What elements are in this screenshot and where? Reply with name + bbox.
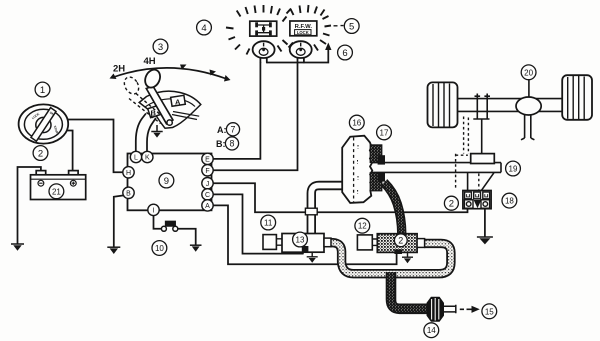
label 9 <box>159 173 174 188</box>
svg-text:A:: A: <box>217 125 227 135</box>
arrow to vacuum source 15 <box>460 306 480 313</box>
solenoid valve 12 body <box>357 234 424 254</box>
terminal H <box>123 167 134 178</box>
dashed hub housing outline <box>456 117 479 191</box>
lever range arc 2H-4H <box>113 68 228 79</box>
label 7 with A <box>217 123 240 136</box>
svg-text:H: H <box>126 170 131 177</box>
ground: shift lever <box>151 125 162 138</box>
label 14 <box>424 323 439 338</box>
svg-text:8: 8 <box>230 139 235 149</box>
ground: terminal B <box>107 247 120 254</box>
circled number labels <box>33 19 536 338</box>
svg-text:4H: 4H <box>144 56 156 67</box>
label 13 <box>293 232 308 247</box>
svg-text:18: 18 <box>505 197 514 206</box>
label 2 on valve 12 <box>394 234 407 247</box>
control unit terminals <box>123 151 213 215</box>
svg-text:F: F <box>205 168 209 175</box>
axle beam <box>457 99 562 112</box>
svg-text:7: 7 <box>231 125 236 135</box>
svg-text:E: E <box>205 157 210 164</box>
label 10 <box>152 241 167 256</box>
actuator 16 <box>342 136 372 203</box>
svg-text:2H: 2H <box>113 64 125 75</box>
indicator bulb 5 <box>290 41 312 58</box>
label 21 <box>49 184 64 199</box>
indicator lamp group <box>226 5 344 58</box>
arrowhead of node 6 <box>325 43 331 51</box>
wire: terminal B to ground <box>114 195 125 246</box>
svg-text:B: B <box>126 191 131 198</box>
label 18 <box>502 193 517 208</box>
left wheel <box>428 82 458 127</box>
svg-text:5: 5 <box>349 21 354 32</box>
terminal B <box>123 187 134 198</box>
svg-text:9: 9 <box>164 176 169 187</box>
front axle assembly <box>428 75 593 190</box>
svg-text:A: A <box>175 97 181 106</box>
svg-text:A: A <box>205 203 210 210</box>
ground: dash switch 10 <box>190 245 202 252</box>
wire: terminal I to dash switch and ground <box>154 215 162 229</box>
svg-text:20: 20 <box>524 68 533 77</box>
dash switch 10 contacts <box>161 221 177 231</box>
knuckle funnel <box>468 173 494 191</box>
wire: bulb 2 leads <box>298 57 304 63</box>
actuator shaft tube 19 <box>371 154 501 191</box>
terminal C <box>202 189 213 200</box>
label 11 <box>261 215 276 230</box>
vacuum supply hose: valve 13 port to valve 12 port (wide) <box>330 243 451 274</box>
gate position box A <box>171 95 186 106</box>
dash-dot leader to label 5 <box>334 25 344 27</box>
drive shaft from differential <box>521 115 534 140</box>
wire: ignition switch to battery plus terminal <box>65 131 73 171</box>
svg-text:3: 3 <box>158 42 163 53</box>
vacuum branch hose to check valve 14 (dark) <box>391 272 428 309</box>
wire: lamp common rail to power arrow 6 <box>267 50 329 63</box>
label 19 <box>506 161 521 176</box>
label 2 ignition <box>33 146 48 161</box>
terminal F <box>202 165 213 176</box>
svg-text:2: 2 <box>38 148 43 159</box>
svg-text:J: J <box>206 181 210 188</box>
lever gate fan <box>139 91 201 128</box>
kingpin shaft <box>481 119 483 153</box>
ignition switch body 1/2 <box>19 104 69 143</box>
terminal K <box>142 151 153 162</box>
battery 21 <box>31 171 86 200</box>
svg-text:K: K <box>145 155 150 162</box>
lever pivot <box>167 120 172 125</box>
svg-text:17: 17 <box>380 128 389 137</box>
svg-text:12: 12 <box>358 222 367 231</box>
wire: terminal E to indicator bulb 1 <box>211 63 260 159</box>
svg-text:10: 10 <box>155 244 164 253</box>
right wheel <box>562 75 592 120</box>
svg-text:14: 14 <box>427 326 436 335</box>
terminal I <box>148 204 159 215</box>
lever ghost (2H position, dashed) <box>121 75 166 124</box>
label 15 <box>482 304 497 319</box>
ground: battery minus <box>11 244 24 251</box>
differential 20 <box>516 80 541 116</box>
ground: RFW switch 18 <box>477 237 493 244</box>
hub block on tube <box>471 154 495 164</box>
svg-text:4: 4 <box>201 23 206 34</box>
svg-text:15: 15 <box>485 307 494 316</box>
wire: terminal F to indicator bulb 2 <box>211 63 298 171</box>
label 6 <box>338 45 353 60</box>
wire: bulb 1 leads <box>260 57 266 63</box>
gate position box B <box>148 105 163 118</box>
label 3 <box>153 39 168 54</box>
RFW lock switch 18 <box>463 191 491 209</box>
label 17 <box>377 125 392 140</box>
wire: battery minus to ground <box>18 167 41 244</box>
svg-text:2: 2 <box>449 199 454 210</box>
svg-text:16: 16 <box>352 119 361 128</box>
svg-text:19: 19 <box>509 165 518 174</box>
vacuum hose: actuator coupling to valve 12 (stippled) <box>384 183 402 235</box>
rays around lamp 4 <box>226 5 291 55</box>
terminal A <box>202 200 213 211</box>
svg-text:1: 1 <box>40 85 45 96</box>
svg-text:L: L <box>134 155 138 162</box>
svg-text:LOCK: LOCK <box>297 30 309 35</box>
label 2 at RFW switch <box>444 196 458 210</box>
label 8 with B <box>216 137 239 150</box>
terminal L <box>130 151 141 162</box>
svg-text:2: 2 <box>398 236 403 246</box>
shift lever assembly 3 <box>110 65 231 129</box>
svg-text:13: 13 <box>296 236 305 245</box>
svg-text:I: I <box>153 208 155 215</box>
control unit 9 <box>128 154 212 211</box>
svg-text:6: 6 <box>342 48 347 59</box>
label 5 <box>344 19 359 34</box>
wire: shift lever to terminal K <box>147 119 156 153</box>
terminal E <box>202 153 213 164</box>
wire: terminal J to RFW switch <box>212 183 468 212</box>
label 1 <box>35 82 50 97</box>
indicator bulb 4 <box>253 41 275 58</box>
RFW LOCK badge 5 <box>290 21 317 36</box>
svg-text:B:: B: <box>216 139 226 149</box>
check valve 14 <box>427 297 456 321</box>
ground: valve 12 <box>402 253 413 264</box>
svg-text:21: 21 <box>52 187 61 196</box>
lever shaft and knob (4H position) <box>146 86 173 124</box>
4WD indicator badge 4 <box>250 21 277 36</box>
svg-text:C: C <box>205 192 210 199</box>
wire: terminal A to solenoid valve 12 <box>212 205 397 264</box>
svg-text:11: 11 <box>264 219 273 228</box>
wire: ignition switch to terminal H <box>66 120 122 173</box>
clutch coupling 17 <box>370 145 384 191</box>
vacuum hose: valve 13 to actuator port <box>305 186 344 234</box>
ground: valve 13 <box>307 252 318 262</box>
rays around lamp 5 <box>283 5 332 51</box>
terminal J <box>202 178 213 189</box>
steering knuckle joint <box>473 94 490 120</box>
hose joint fitting <box>305 208 317 215</box>
label 16 <box>349 115 364 130</box>
label 12 <box>355 218 370 233</box>
label 20 <box>521 65 536 80</box>
wire: RFW switch to ground <box>484 209 486 237</box>
wire: terminal C to solenoid valve 13 <box>212 194 304 253</box>
wire: shift lever to terminal L <box>136 114 146 152</box>
label 4 <box>197 20 212 35</box>
solenoid valve 13 body <box>263 234 331 253</box>
detent rod <box>172 112 199 120</box>
